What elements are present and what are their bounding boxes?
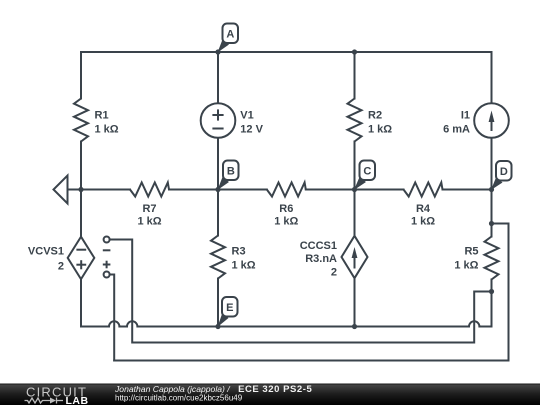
svg-text:1 kΩ: 1 kΩ bbox=[368, 124, 392, 136]
wire right riser bbox=[508, 224, 510, 361]
wire R1 bottom lead bbox=[80, 142, 82, 190]
svg-text:V1: V1 bbox=[240, 110, 253, 122]
svg-text:B: B bbox=[227, 166, 235, 178]
junction CCCS1 bottom bbox=[352, 324, 357, 329]
wire R6 to node C bbox=[306, 189, 355, 191]
wire left column top (A to R1) bbox=[80, 52, 82, 99]
label CCCS1 R3.nA 2 bbox=[300, 240, 337, 279]
wire top rail A bbox=[81, 51, 492, 53]
label VCVS1 2 bbox=[28, 246, 64, 273]
VCVS1 dependent source diamond bbox=[68, 237, 95, 279]
wire bottom rail with hops bbox=[81, 321, 492, 326]
VCVS1 sense terminal plus bbox=[103, 261, 111, 278]
wire node D down to tap bbox=[491, 190, 493, 237]
svg-text:1 kΩ: 1 kΩ bbox=[232, 259, 256, 271]
wire R3 top lead bbox=[217, 190, 219, 236]
wire D tap horizontal bbox=[492, 223, 509, 225]
label R6 1 kΩ bbox=[274, 203, 298, 228]
wire node C to R4 bbox=[355, 189, 404, 191]
wire R3 bottom lead (to node E) bbox=[217, 279, 219, 327]
svg-text:1 kΩ: 1 kΩ bbox=[137, 216, 161, 228]
resistor R5 bbox=[485, 237, 499, 280]
label I1 6 mA bbox=[443, 110, 470, 136]
wire bottom run to right riser bbox=[114, 360, 508, 362]
wire I1 bottom lead bbox=[491, 138, 493, 190]
resistor R1 bbox=[74, 99, 88, 142]
wire V1 top lead bbox=[217, 52, 219, 103]
node flag A bbox=[218, 24, 239, 53]
wire I1 top lead bbox=[491, 52, 493, 103]
VCVS1 sense terminal minus bbox=[103, 237, 111, 251]
svg-text:R1: R1 bbox=[95, 110, 109, 122]
label R7 1 kΩ bbox=[137, 203, 161, 228]
svg-text:http://circuitlab.com/cue2kbcz: http://circuitlab.com/cue2kbcz56u49 bbox=[115, 393, 243, 402]
label R1 1 kΩ bbox=[95, 110, 119, 136]
label R3 1 kΩ bbox=[232, 246, 256, 272]
svg-text:1 kΩ: 1 kΩ bbox=[454, 259, 478, 271]
wire V1 bottom lead bbox=[217, 138, 219, 190]
CCCS1 dependent source diamond bbox=[342, 236, 368, 278]
node flag B bbox=[218, 161, 239, 191]
CircuitLab logo resistor-diode glyph bbox=[25, 398, 64, 404]
resistor R2 bbox=[348, 99, 362, 142]
junction ground node bbox=[78, 187, 83, 192]
svg-text:R4: R4 bbox=[416, 203, 431, 215]
label V1 12 V bbox=[240, 110, 263, 136]
ground symbol bbox=[54, 176, 68, 204]
svg-text:1 kΩ: 1 kΩ bbox=[274, 216, 298, 228]
junction node B bbox=[215, 187, 220, 192]
VCVS1 polarity marks bbox=[76, 250, 86, 270]
node flag C bbox=[354, 161, 375, 191]
wire VCVS minus sense to R5 tap bbox=[110, 240, 492, 343]
resistor R3 bbox=[211, 236, 225, 279]
wire R5 bottom lead bbox=[491, 280, 493, 327]
wire R7 to node B bbox=[169, 189, 218, 191]
svg-text:2: 2 bbox=[58, 261, 64, 273]
svg-text:E: E bbox=[226, 302, 233, 314]
label R5 1 kΩ bbox=[454, 246, 478, 272]
label R4 1 kΩ bbox=[411, 203, 435, 228]
svg-text:R7: R7 bbox=[142, 203, 156, 215]
wire R2 bottom lead bbox=[354, 142, 356, 190]
junction node D bbox=[489, 187, 494, 192]
svg-text:1 kΩ: 1 kΩ bbox=[95, 124, 119, 136]
wire left column VCVS top lead bbox=[80, 190, 82, 238]
footer attribution text bbox=[114, 384, 312, 403]
CCCS1 arrow bbox=[352, 247, 358, 269]
current source I1 bbox=[474, 103, 509, 138]
resistor R7 bbox=[130, 183, 169, 197]
svg-text:2: 2 bbox=[331, 267, 337, 279]
footer bar bbox=[0, 384, 540, 405]
wire R4 to node D bbox=[443, 189, 492, 191]
wire left column VCVS bottom lead bbox=[80, 279, 82, 327]
junction R5 tap bbox=[489, 289, 494, 294]
node flag E bbox=[218, 297, 238, 327]
svg-text:C: C bbox=[363, 166, 371, 178]
svg-text:R2: R2 bbox=[368, 110, 382, 122]
svg-text:I1: I1 bbox=[461, 110, 470, 122]
wire VCVS plus sense to far right bbox=[110, 275, 115, 361]
svg-text:R6: R6 bbox=[279, 203, 293, 215]
wire node B to R6 bbox=[218, 189, 267, 191]
svg-text:VCVS1: VCVS1 bbox=[28, 246, 64, 258]
svg-text:R3: R3 bbox=[232, 246, 246, 258]
svg-text:R3.nA: R3.nA bbox=[305, 253, 337, 265]
svg-text:LAB: LAB bbox=[66, 395, 89, 405]
junction D tap bbox=[489, 221, 494, 226]
svg-text:D: D bbox=[500, 166, 508, 178]
junction top rail at R2 bbox=[352, 49, 357, 54]
svg-text:CCCS1: CCCS1 bbox=[300, 240, 337, 252]
junction node E bbox=[215, 324, 220, 329]
svg-text:1 kΩ: 1 kΩ bbox=[411, 216, 435, 228]
wire R2 top lead bbox=[354, 52, 356, 99]
junction node A bbox=[215, 49, 220, 54]
wire ground stub bbox=[68, 189, 82, 191]
CircuitLab logo wordmark bbox=[26, 385, 89, 405]
svg-text:A: A bbox=[226, 29, 234, 41]
voltage source V1 bbox=[201, 103, 236, 138]
svg-text:12 V: 12 V bbox=[240, 124, 263, 136]
resistor R4 bbox=[404, 183, 443, 197]
label R2 1 kΩ bbox=[368, 110, 392, 136]
wire mid rail left (ground to R7) bbox=[81, 189, 130, 191]
junction node C bbox=[352, 187, 357, 192]
node flag D bbox=[491, 161, 512, 190]
svg-text:6 mA: 6 mA bbox=[443, 124, 470, 136]
resistor R6 bbox=[267, 183, 306, 197]
svg-text:R5: R5 bbox=[464, 246, 478, 258]
wire CCCS1 top lead bbox=[354, 190, 356, 236]
wire CCCS1 bottom lead bbox=[354, 278, 356, 326]
